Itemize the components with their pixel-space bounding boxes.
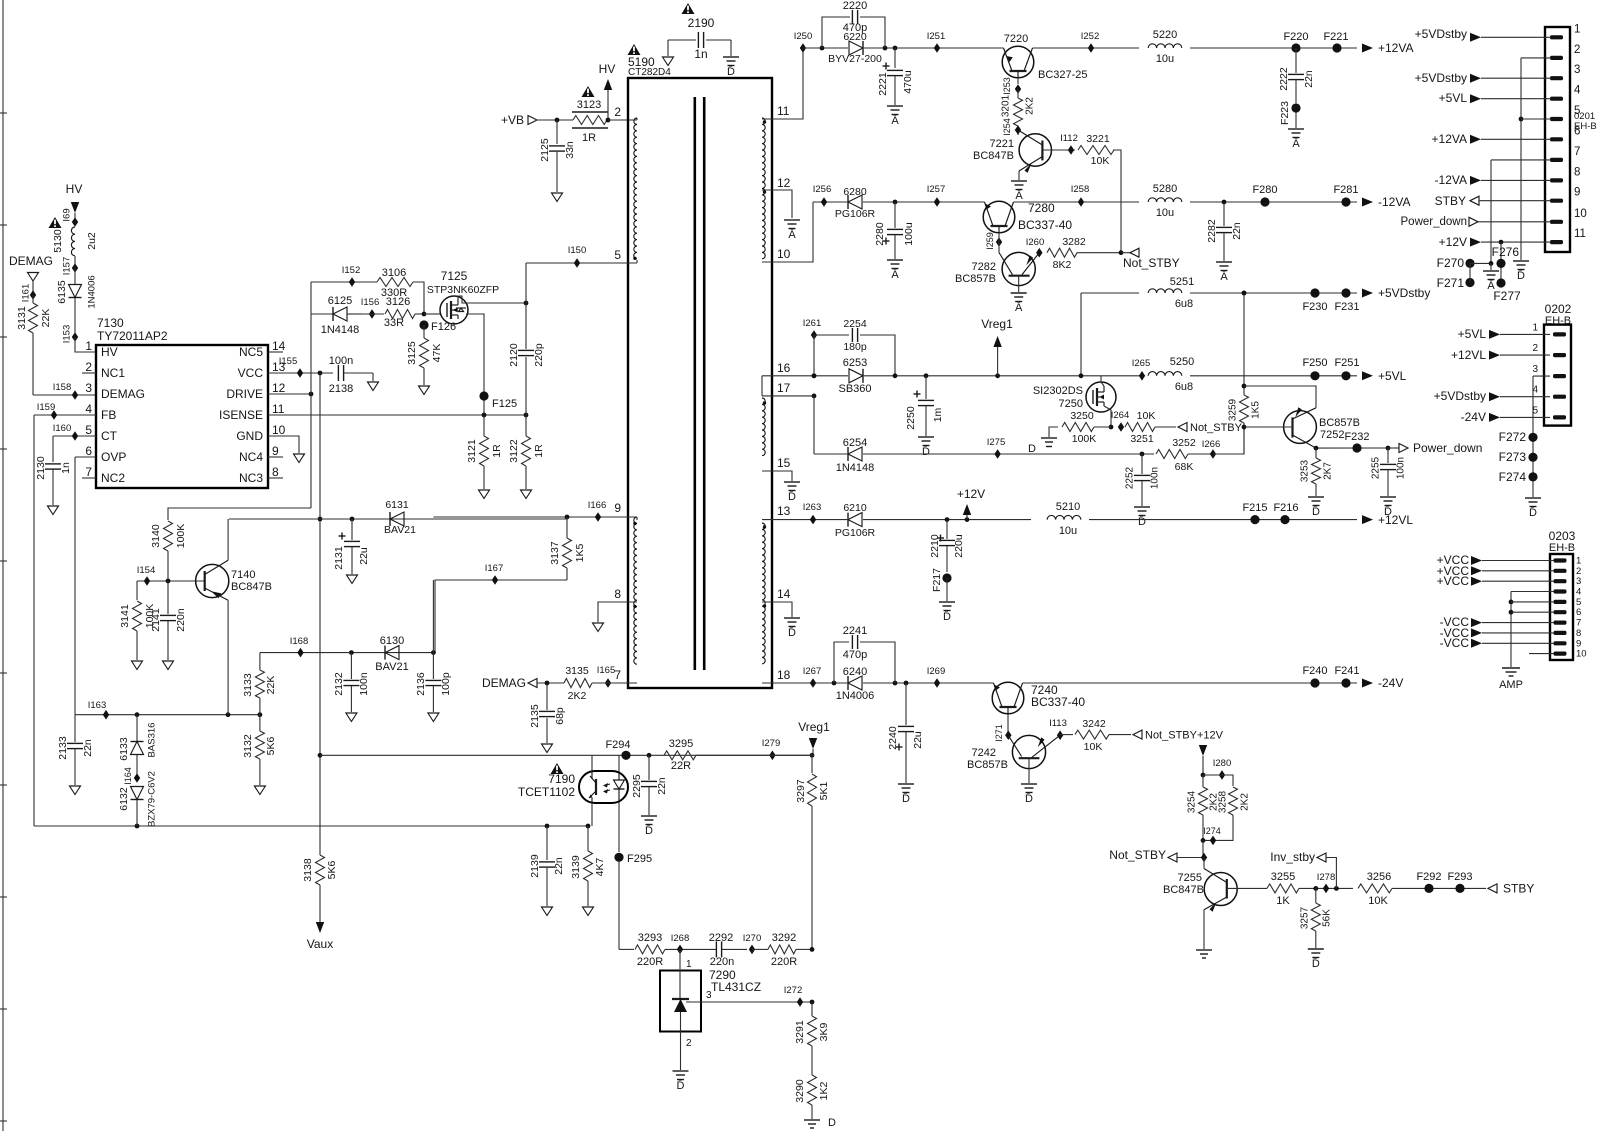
svg-text:17: 17 (777, 381, 791, 395)
svg-text:CT: CT (101, 429, 118, 443)
junction I269 label (927, 666, 946, 677)
pin 7 NC2 stub (82, 477, 96, 479)
svg-text:I278: I278 (1317, 872, 1336, 883)
svg-text:F292: F292 (1416, 871, 1441, 883)
svg-text:HV: HV (101, 345, 118, 359)
wire pin 15 to ground D (762, 471, 792, 481)
svg-text:10u: 10u (1156, 207, 1174, 219)
svg-text:DRIVE: DRIVE (226, 387, 263, 401)
junction I271 (994, 714, 1012, 742)
svg-text:18: 18 (777, 668, 791, 682)
ground (IC GND) (294, 454, 305, 463)
ground A (pin 12) (784, 220, 800, 241)
pin 2 NC1 stub (82, 372, 96, 374)
transistor Q7282 BC857B (955, 252, 1039, 285)
svg-text:DEMAG: DEMAG (482, 676, 526, 690)
svg-text:5250: 5250 (1170, 356, 1194, 368)
ground (2125) (552, 193, 563, 202)
svg-text:6133: 6133 (118, 737, 130, 761)
svg-text:+5VDstby: +5VDstby (1434, 389, 1486, 403)
ground D (0202) (1525, 498, 1541, 519)
svg-text:Not_STBY: Not_STBY (1109, 848, 1166, 862)
svg-text:2132: 2132 (333, 672, 345, 696)
svg-text:I270: I270 (743, 933, 762, 944)
resistor 3121 1R (466, 415, 503, 489)
svg-text:22n: 22n (1231, 222, 1243, 240)
junction I272 (784, 985, 815, 1007)
diode 6135 1N4006 (56, 268, 98, 337)
wire pin 18 to -24V rail (762, 682, 813, 684)
wire VCC vertical rail to Vaux (318, 373, 323, 855)
ground D (7242) (1021, 784, 1037, 805)
svg-text:D̄: D̄ (645, 824, 653, 837)
svg-text:Not_STBY: Not_STBY (1190, 422, 1243, 434)
svg-text:5210: 5210 (1056, 501, 1080, 513)
op-amp U7290 TL431CZ shunt regulator (660, 949, 813, 1070)
svg-text:HV: HV (66, 182, 83, 196)
svg-text:3295: 3295 (669, 738, 693, 750)
transistor Q7250 SI2302DS MOSFET (1033, 382, 1116, 412)
junction F223 (1279, 101, 1301, 128)
svg-text:D̄: D̄ (1138, 515, 1146, 528)
svg-text:F240: F240 (1302, 665, 1327, 677)
wire 0202 pin4 +5VDstby (1434, 389, 1550, 403)
inductor 5220 10u (1148, 29, 1182, 65)
svg-text:5: 5 (614, 248, 621, 262)
wire -24V rail (810, 678, 1357, 688)
svg-text:3: 3 (1574, 64, 1580, 76)
junction I153 (62, 325, 79, 344)
svg-text:10: 10 (1576, 649, 1587, 660)
svg-text:6240: 6240 (843, 666, 867, 678)
resistor 3242 10K (1060, 718, 1132, 753)
svg-text:D̄: D̄ (788, 490, 796, 503)
svg-text:Inv_stby: Inv_stby (1270, 850, 1315, 864)
wire pin8 -12VA (1435, 173, 1551, 187)
svg-text:Ā: Ā (1015, 302, 1023, 314)
svg-text:I152: I152 (342, 265, 361, 276)
resistor 3126 33R (362, 296, 440, 329)
svg-text:+5VL: +5VL (1439, 91, 1468, 105)
svg-text:7252: 7252 (1320, 429, 1344, 441)
svg-text:3256: 3256 (1367, 871, 1391, 883)
svg-text:EH-B: EH-B (1549, 542, 1575, 554)
wire +5VDstby rail (1081, 291, 1357, 376)
inductor 5250 6u8 (1148, 356, 1194, 393)
svg-text:3106: 3106 (382, 267, 406, 279)
junction I257 label (927, 184, 946, 195)
svg-text:2K2: 2K2 (568, 690, 587, 702)
svg-text:2u2: 2u2 (86, 232, 98, 250)
svg-text:BAV21: BAV21 (375, 661, 408, 673)
capacitor 2254 180p bridge (814, 318, 895, 376)
resistor 3293 220R (635, 932, 716, 968)
capacitor 2222 22n (1278, 48, 1315, 103)
node Not_STBY flag (7255 base) (1109, 848, 1207, 862)
svg-text:2210: 2210 (929, 534, 941, 558)
svg-text:SB360: SB360 (838, 383, 871, 395)
wire base node I154 (137, 565, 205, 600)
svg-text:1R: 1R (582, 132, 596, 144)
svg-text:STBY: STBY (1435, 194, 1466, 208)
svg-text:2295: 2295 (631, 774, 643, 798)
svg-text:22n: 22n (82, 739, 94, 757)
svg-text:I267: I267 (803, 666, 822, 677)
svg-text:2282: 2282 (1206, 219, 1218, 243)
wire 7252 base (1244, 426, 1293, 428)
svg-text:I272: I272 (784, 985, 803, 996)
capacitor 2255 100n (1371, 448, 1407, 496)
svg-text:3137: 3137 (549, 541, 561, 565)
svg-text:F232: F232 (1344, 431, 1369, 443)
svg-text:2254: 2254 (843, 318, 867, 330)
svg-text:I165: I165 (597, 665, 616, 676)
ground D (pin 14) (784, 618, 800, 639)
svg-text:F280: F280 (1252, 184, 1277, 196)
resistor 3292 220R (768, 932, 814, 968)
junction I263 label (803, 502, 822, 513)
wire 0203 pin9 -VCC (1440, 636, 1554, 650)
wire Vreg1 feedback rail (320, 751, 814, 761)
ground AMP (1499, 668, 1523, 691)
fuse pad F232 (1344, 431, 1369, 453)
svg-text:6u8: 6u8 (1175, 381, 1193, 393)
svg-text:+VCC: +VCC (1437, 574, 1470, 588)
svg-text:-12VA: -12VA (1435, 173, 1467, 187)
svg-text:I113: I113 (1049, 718, 1067, 729)
svg-text:3258: 3258 (1218, 790, 1229, 813)
diode 6240 1N4006 (836, 666, 875, 702)
svg-text:BC337-40: BC337-40 (1031, 695, 1085, 709)
svg-text:1: 1 (1574, 23, 1580, 35)
capacitor 2282 22n (1206, 202, 1243, 261)
svg-text:BYV27-200: BYV27-200 (828, 53, 882, 65)
ground (3122) (521, 490, 532, 499)
svg-text:3259: 3259 (1228, 398, 1239, 421)
ground D (2252) (1134, 507, 1150, 528)
ground D (3253) (1308, 497, 1324, 518)
svg-text:5280: 5280 (1153, 183, 1177, 195)
svg-text:Ā: Ā (788, 229, 796, 241)
svg-text:4K7: 4K7 (594, 858, 606, 877)
node Vreg1 up arrow (981, 317, 1013, 376)
wire TL431 divider rail (619, 948, 634, 950)
svg-text:-VCC: -VCC (1440, 636, 1470, 650)
svg-text:I264: I264 (1111, 410, 1130, 421)
svg-text:2131: 2131 (333, 546, 345, 570)
svg-text:33R: 33R (384, 317, 404, 329)
svg-text:100K: 100K (175, 524, 187, 549)
wire 0202 pin2 +12VL (1451, 348, 1550, 362)
junction I250 (794, 31, 813, 53)
resistor 3297 5K1 (795, 755, 830, 949)
svg-text:NC4: NC4 (239, 450, 263, 464)
svg-text:CT282D4: CT282D4 (628, 67, 671, 78)
svg-text:7220: 7220 (1004, 33, 1028, 45)
svg-text:1K2: 1K2 (818, 1082, 830, 1101)
svg-text:3254: 3254 (1187, 790, 1198, 813)
wire HV to IC pin 1 (75, 337, 96, 352)
capacitor 2190 1n (668, 16, 731, 61)
resistor 3259 1K5 (1228, 395, 1262, 454)
node Not_STBY flag (3251) (1178, 422, 1243, 434)
svg-text:14: 14 (272, 339, 286, 353)
svg-text:8: 8 (1574, 166, 1580, 178)
junction I278 (1317, 872, 1336, 893)
wire 7250 drain (1101, 376, 1104, 386)
warning symbol at 7190 (551, 763, 564, 774)
svg-text:7190: 7190 (548, 772, 575, 786)
svg-text:8: 8 (614, 587, 621, 601)
svg-text:1N4006: 1N4006 (87, 275, 98, 308)
transformer primary winding pins 2-5 (614, 105, 637, 262)
ground (2135) (542, 744, 553, 753)
resistor 3251 10K (1125, 410, 1176, 445)
capacitor 2139 22n (529, 826, 565, 906)
wire FB net with junction I159 (34, 402, 96, 826)
transistor Q7242 BC857B (967, 735, 1060, 771)
svg-text:Vreg1: Vreg1 (981, 317, 1013, 331)
inductor 5280 10u (1148, 183, 1182, 219)
resistor 3255 1K (1267, 871, 1353, 907)
junction I161 (21, 284, 37, 303)
diode 6253 SB360 (838, 357, 871, 395)
svg-text:16: 16 (777, 361, 791, 375)
svg-text:220u: 220u (953, 534, 965, 558)
svg-text:+5VL: +5VL (1378, 369, 1407, 383)
wire I167 link (435, 563, 567, 653)
svg-text:11: 11 (1574, 228, 1586, 240)
resistor 3254 2K2 (1187, 787, 1220, 840)
svg-text:1n: 1n (60, 462, 72, 474)
svg-text:BAV21: BAV21 (384, 524, 416, 536)
wire opto cathode to F295 (618, 803, 620, 852)
wire 0202 pin5 -24V (1461, 410, 1550, 424)
inductor 5130 2u2 (52, 227, 98, 256)
wire pin 11 riser (762, 48, 803, 119)
svg-text:I156: I156 (361, 297, 380, 308)
ground A (2280) (887, 260, 903, 281)
svg-text:3282: 3282 (1062, 236, 1086, 248)
svg-text:3292: 3292 (772, 932, 796, 944)
svg-text:BC847B: BC847B (973, 150, 1014, 162)
svg-text:2130: 2130 (35, 456, 47, 480)
capacitor 2240 22u (887, 683, 924, 783)
svg-text:D̄: D̄ (727, 65, 735, 78)
svg-text:2252: 2252 (1125, 466, 1136, 489)
svg-text:9: 9 (1574, 187, 1580, 199)
svg-text:1N4148: 1N4148 (836, 462, 875, 474)
ground (2138) (368, 382, 379, 391)
svg-text:5: 5 (85, 423, 92, 437)
svg-text:+5VDstby: +5VDstby (1378, 286, 1430, 300)
ground (CT) (48, 506, 59, 515)
resistor 3252 68K (1156, 437, 1213, 473)
resistor 3257 56K (1300, 888, 1333, 948)
fuse pad F216 (1273, 502, 1298, 524)
svg-text:Vaux: Vaux (307, 937, 333, 951)
svg-text:2125: 2125 (539, 138, 551, 162)
ground (3125) (419, 386, 430, 395)
svg-text:3201: 3201 (1001, 94, 1012, 117)
svg-text:I258: I258 (1071, 184, 1090, 195)
diode 6133 BAS316 (118, 715, 158, 778)
wire DRIVE net (168, 282, 313, 520)
node Vaux (307, 922, 333, 951)
svg-text:10: 10 (777, 247, 791, 261)
svg-text:14: 14 (777, 587, 791, 601)
svg-text:100K: 100K (1072, 433, 1097, 445)
node +VB input flag (501, 113, 573, 127)
svg-text:F295: F295 (627, 853, 652, 865)
svg-text:F221: F221 (1323, 31, 1348, 43)
svg-text:-12VA: -12VA (1378, 195, 1410, 209)
svg-text:10K: 10K (1137, 410, 1156, 422)
svg-text:I154: I154 (137, 565, 156, 576)
node Not_STBY+12V flag (1133, 730, 1224, 742)
svg-text:BC327-25: BC327-25 (1038, 69, 1088, 81)
svg-text:6135: 6135 (56, 280, 68, 304)
svg-text:F273: F273 (1499, 450, 1527, 464)
resistor 3131 22K (16, 295, 52, 395)
wire pin11 +12V (1439, 235, 1551, 249)
wire pin 12 to ground A (762, 190, 792, 218)
resistor 3256 10K (1358, 871, 1486, 907)
capacitor 2133 22n (57, 715, 94, 785)
fuse pad F281 (1333, 184, 1358, 207)
svg-text:D̄: D̄ (1312, 957, 1320, 970)
junction F125 (479, 391, 517, 410)
svg-text:22n: 22n (656, 777, 668, 795)
svg-text:ISENSE: ISENSE (219, 408, 263, 422)
svg-text:I161: I161 (21, 284, 32, 303)
resistor 3250 100K (1049, 410, 1111, 445)
svg-text:I265: I265 (1132, 358, 1151, 369)
svg-text:22K: 22K (265, 676, 277, 695)
svg-text:F274: F274 (1499, 470, 1527, 484)
svg-text:10K: 10K (1368, 895, 1388, 907)
svg-text:3242: 3242 (1082, 718, 1106, 730)
svg-text:2241: 2241 (843, 625, 867, 637)
wire CT net with junction I160 (53, 423, 96, 462)
capacitor 2120 220p (508, 303, 545, 415)
warning symbol at 2190 (682, 3, 695, 14)
svg-text:47K: 47K (431, 344, 443, 363)
resistor 3137 1K5 (549, 517, 586, 580)
svg-text:I167: I167 (485, 563, 504, 574)
diode 6125 1N4148 (311, 295, 362, 336)
junction I251 label (927, 31, 946, 42)
node +5VDstby output arrow (1362, 286, 1430, 300)
ground (3141) (132, 661, 143, 670)
resistor 3125 47K (406, 325, 443, 385)
connector 0201 EH-B (1545, 23, 1597, 252)
node -12VA output arrow (1362, 195, 1410, 209)
svg-text:I266: I266 (1202, 439, 1221, 450)
svg-text:6131: 6131 (385, 499, 409, 511)
svg-text:7242: 7242 (972, 747, 996, 759)
svg-text:7: 7 (85, 465, 92, 479)
svg-text:-24V: -24V (1378, 676, 1403, 690)
svg-text:3125: 3125 (406, 341, 418, 365)
transistor Q7252 BC857B (1284, 407, 1360, 448)
svg-text:F272: F272 (1499, 430, 1527, 444)
node +5VL output arrow (1362, 369, 1407, 383)
svg-text:Ā: Ā (1015, 190, 1023, 202)
ground D (TL431) (673, 1071, 689, 1092)
wire drive collector rail y=519 (229, 517, 567, 522)
svg-text:F231: F231 (1334, 301, 1359, 313)
svg-text:DEMAG: DEMAG (9, 254, 53, 268)
ground D (3290) (804, 1117, 836, 1129)
svg-text:2136: 2136 (415, 672, 427, 696)
svg-text:I166: I166 (588, 500, 607, 511)
svg-text:6254: 6254 (843, 437, 867, 449)
ground D (0201 pin2) (1513, 261, 1529, 282)
junction I261 (803, 318, 822, 376)
capacitor 2138 100n (329, 355, 373, 395)
svg-text:2: 2 (85, 360, 92, 374)
junction I254 (1002, 118, 1021, 136)
svg-text:2255: 2255 (1371, 456, 1382, 479)
ground D (2295) (641, 816, 657, 837)
svg-text:BAS316: BAS316 (147, 723, 158, 758)
ground A (7282) (1011, 293, 1027, 314)
fuse pad F231 (1334, 288, 1359, 313)
svg-text:3297: 3297 (795, 779, 807, 803)
svg-text:OVP: OVP (101, 450, 126, 464)
wire 7242 collector to ground D (1028, 758, 1030, 783)
svg-text:3K9: 3K9 (818, 1023, 830, 1042)
wire pin3 +5VDstby (1415, 71, 1551, 85)
svg-text:-24V: -24V (1461, 410, 1486, 424)
svg-text:I153: I153 (62, 325, 73, 344)
svg-text:2280: 2280 (874, 222, 886, 246)
capacitor 2135 68p (529, 683, 566, 743)
svg-text:2220: 2220 (843, 0, 867, 12)
warning symbol at 5190 (628, 44, 641, 55)
svg-text:100p: 100p (440, 672, 452, 696)
wire gate network top branch with junction I152 (311, 265, 377, 287)
svg-text:7250: 7250 (1059, 398, 1083, 410)
ground A (F270) (1483, 263, 1499, 292)
wire opto anode pin (618, 755, 620, 771)
diode 6210 PG106R (835, 502, 876, 539)
svg-text:10K: 10K (1091, 155, 1110, 167)
svg-text:I279: I279 (762, 738, 781, 749)
svg-text:F241: F241 (1334, 665, 1359, 677)
svg-text:F125: F125 (492, 398, 517, 410)
node +12VA output arrow (1362, 41, 1413, 55)
resistor 3123 1R fusible (572, 99, 608, 144)
svg-text:9: 9 (272, 444, 279, 458)
fuse pad F241 (1334, 665, 1359, 688)
transistor Q7280 BC337-40 (983, 201, 1072, 233)
wire pin 8 to ground (598, 602, 637, 622)
wire 7252 emitter to +5VL node (1244, 386, 1316, 408)
node +12V up arrow (957, 487, 985, 520)
svg-text:3291: 3291 (794, 1020, 806, 1044)
wire pin1 +5VDstby (1415, 27, 1551, 42)
junction I274 (1201, 826, 1221, 858)
resistor 3291 3K9 (794, 1002, 830, 1075)
svg-text:I256: I256 (813, 184, 832, 195)
transformer T5190 CT282D4 (628, 55, 772, 688)
resistor 3221 10K (1078, 133, 1121, 253)
wire 0203 pin1 +VCC (1437, 553, 1554, 567)
op-amp U7190 TCET1102 optocoupler (518, 771, 628, 803)
svg-text:BC337-40: BC337-40 (1018, 218, 1072, 232)
